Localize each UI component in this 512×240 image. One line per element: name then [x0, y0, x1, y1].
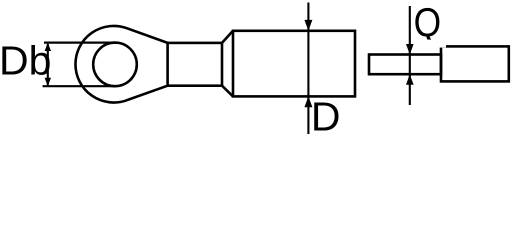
insulation sleeve — [233, 31, 355, 97]
Db arrow down — [45, 78, 51, 86]
ring terminal outer profile — [75, 26, 167, 103]
svg-text:Db: Db — [0, 38, 51, 84]
D dimension line bottom — [307, 96, 309, 134]
Q arrow down — [406, 44, 414, 55]
Q tail trim — [424, 40, 446, 48]
Db extension line bottom — [43, 85, 116, 87]
Q dimension line — [409, 6, 411, 105]
insulation flare top — [222, 31, 233, 43]
D dimension line top — [307, 3, 309, 97]
svg-text:Q: Q — [414, 0, 442, 45]
Db arrow up — [45, 43, 51, 51]
terminal hole — [93, 43, 137, 87]
D arrow down — [304, 20, 312, 31]
wire conductor — [369, 55, 441, 75]
wire barrel — [168, 43, 222, 86]
D arrow up — [304, 96, 312, 107]
wire insulation — [441, 46, 509, 81]
Q arrow up — [406, 74, 414, 85]
insulation flare bottom — [222, 86, 233, 97]
svg-text:D: D — [311, 94, 341, 140]
Db extension line top — [44, 41, 116, 43]
Db dimension line — [47, 44, 49, 85]
